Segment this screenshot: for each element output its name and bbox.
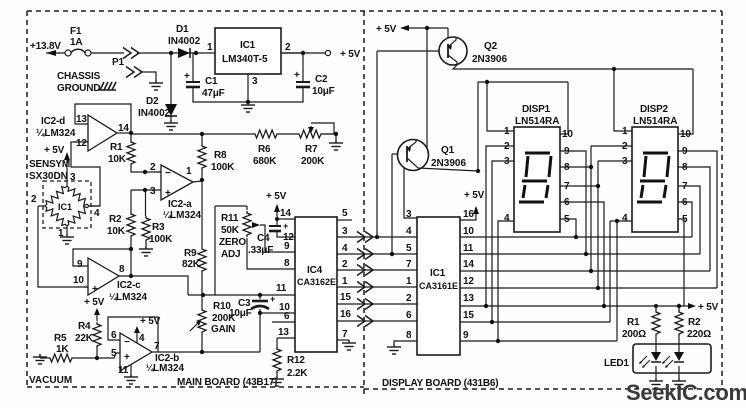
- svg-text:R7: R7: [305, 144, 318, 155]
- svg-text:Q2: Q2: [484, 41, 498, 52]
- svg-text:100K: 100K: [211, 162, 235, 173]
- svg-text:2: 2: [285, 42, 291, 53]
- svg-text:16: 16: [463, 209, 474, 220]
- svg-text:SeekIC.com: SeekIC.com: [626, 380, 746, 405]
- svg-text:2: 2: [150, 162, 156, 173]
- svg-text:3: 3: [252, 76, 258, 87]
- svg-text:1: 1: [406, 276, 412, 287]
- svg-text:+ 5V: + 5V: [84, 297, 105, 308]
- svg-text:C4: C4: [257, 233, 270, 244]
- svg-text:10: 10: [73, 275, 84, 286]
- svg-text:3: 3: [150, 186, 156, 197]
- svg-text:F1: F1: [70, 26, 82, 37]
- svg-text:8: 8: [119, 264, 125, 275]
- svg-text:6: 6: [406, 310, 412, 321]
- svg-text:11: 11: [118, 365, 129, 376]
- svg-text:R5: R5: [54, 333, 67, 344]
- svg-text:200K: 200K: [301, 156, 325, 167]
- svg-text:3: 3: [342, 226, 348, 237]
- svg-text:+: +: [165, 188, 171, 199]
- svg-text:+: +: [92, 284, 98, 295]
- svg-text:5: 5: [342, 208, 348, 219]
- svg-text:P1: P1: [112, 57, 124, 68]
- svg-text:14: 14: [280, 208, 291, 219]
- svg-text:R9: R9: [184, 248, 197, 259]
- svg-text:220Ω: 220Ω: [687, 329, 711, 340]
- svg-text:CA3162E: CA3162E: [297, 277, 336, 287]
- svg-text:−: −: [165, 168, 171, 179]
- svg-text:SX30DN: SX30DN: [29, 171, 68, 182]
- svg-text:DISP1: DISP1: [522, 104, 551, 115]
- svg-text:15: 15: [463, 310, 474, 321]
- svg-text:VACUUM: VACUUM: [29, 375, 72, 386]
- svg-text:R1: R1: [110, 142, 123, 153]
- svg-text:R8: R8: [214, 150, 227, 161]
- svg-text:10K: 10K: [108, 154, 127, 165]
- svg-text:IC2-a: IC2-a: [168, 199, 192, 210]
- svg-text:10μF: 10μF: [312, 86, 335, 97]
- svg-text:680K: 680K: [253, 156, 277, 167]
- svg-text:82K: 82K: [182, 259, 201, 270]
- svg-text:IC1: IC1: [430, 268, 446, 279]
- svg-text:11: 11: [463, 243, 474, 254]
- svg-text:9: 9: [463, 330, 469, 341]
- svg-text:2N3906: 2N3906: [472, 54, 507, 65]
- svg-text:+ 5V: + 5V: [464, 190, 485, 201]
- svg-text:12: 12: [76, 138, 87, 149]
- svg-text:13: 13: [278, 327, 289, 338]
- svg-text:6: 6: [284, 311, 290, 322]
- svg-text:CA3161E: CA3161E: [419, 281, 458, 291]
- svg-text:4: 4: [622, 213, 628, 224]
- svg-text:11: 11: [276, 283, 287, 294]
- svg-text:8: 8: [284, 258, 290, 269]
- svg-text:GROUND: GROUND: [57, 83, 100, 94]
- svg-text:+ 5V: + 5V: [140, 316, 161, 327]
- svg-text:7: 7: [406, 259, 412, 270]
- svg-text:Q1: Q1: [441, 145, 455, 156]
- svg-text:13: 13: [76, 114, 87, 125]
- svg-text:R11: R11: [221, 213, 239, 224]
- svg-text:1: 1: [342, 276, 348, 287]
- svg-text:D1: D1: [176, 24, 189, 35]
- svg-text:SENSYM: SENSYM: [29, 159, 70, 170]
- svg-text:1: 1: [622, 126, 628, 137]
- svg-text:+: +: [124, 352, 130, 363]
- svg-text:R6: R6: [258, 144, 271, 155]
- svg-text:10μF: 10μF: [229, 308, 252, 319]
- svg-text:C1: C1: [205, 76, 218, 87]
- svg-text:DISP2: DISP2: [640, 104, 669, 115]
- svg-text:15: 15: [340, 292, 351, 303]
- svg-text:IC1: IC1: [240, 40, 256, 51]
- svg-text:10: 10: [562, 129, 573, 140]
- svg-text:+: +: [184, 71, 190, 82]
- svg-text:22K: 22K: [75, 333, 94, 344]
- svg-text:1: 1: [207, 42, 213, 53]
- svg-text:ZERO: ZERO: [219, 237, 246, 248]
- svg-text:IC4: IC4: [307, 265, 323, 276]
- svg-text:47μF: 47μF: [202, 88, 225, 99]
- svg-text:7: 7: [342, 329, 348, 340]
- svg-text:1: 1: [186, 166, 192, 177]
- svg-text:IC2-c: IC2-c: [117, 280, 141, 291]
- svg-text:ADJ: ADJ: [221, 249, 240, 260]
- svg-text:4: 4: [406, 226, 412, 237]
- svg-text:6: 6: [111, 330, 117, 341]
- svg-text:+ 5V: + 5V: [698, 302, 719, 313]
- svg-text:¼LM324: ¼LM324: [36, 128, 76, 139]
- svg-text:D2: D2: [146, 96, 159, 107]
- svg-text:4: 4: [139, 333, 145, 344]
- svg-text:+: +: [294, 70, 300, 81]
- svg-text:LED1: LED1: [604, 358, 629, 369]
- svg-text:R2: R2: [109, 214, 122, 225]
- svg-text:1: 1: [504, 126, 510, 137]
- svg-text:100K: 100K: [149, 234, 173, 245]
- svg-text:2: 2: [406, 293, 412, 304]
- svg-text:10: 10: [680, 129, 691, 140]
- svg-text:IN4002: IN4002: [168, 36, 201, 47]
- svg-text:+ 5V: + 5V: [376, 24, 397, 35]
- svg-text:9: 9: [77, 259, 83, 270]
- svg-text:IC1: IC1: [58, 202, 72, 212]
- svg-text:2: 2: [31, 194, 37, 205]
- svg-text:1A: 1A: [70, 37, 82, 48]
- svg-text:R12: R12: [287, 355, 305, 366]
- svg-text:−: −: [124, 337, 130, 348]
- svg-text:+: +: [270, 294, 275, 304]
- svg-text:.33μF: .33μF: [248, 245, 273, 256]
- svg-text:GAIN: GAIN: [211, 324, 235, 335]
- svg-text:+ 5V: + 5V: [266, 191, 287, 202]
- svg-text:LN514RA: LN514RA: [633, 116, 677, 127]
- svg-text:R3: R3: [152, 222, 165, 233]
- svg-text:50K: 50K: [221, 225, 240, 236]
- svg-text:5: 5: [406, 243, 412, 254]
- svg-text:DISPLAY BOARD (431B6): DISPLAY BOARD (431B6): [382, 378, 498, 389]
- svg-text:4: 4: [342, 243, 348, 254]
- svg-text:+ 5V: + 5V: [340, 49, 361, 60]
- svg-text:8: 8: [406, 330, 412, 341]
- svg-text:R4: R4: [78, 321, 91, 332]
- svg-text:2N3906: 2N3906: [431, 158, 466, 169]
- svg-text:9: 9: [284, 241, 290, 252]
- svg-text:R1: R1: [627, 317, 640, 328]
- svg-text:LM324: LM324: [170, 210, 202, 221]
- svg-text:3: 3: [406, 209, 412, 220]
- svg-text:10K: 10K: [107, 226, 126, 237]
- svg-text:10: 10: [463, 226, 474, 237]
- svg-text:LM340T-5: LM340T-5: [222, 54, 268, 65]
- svg-text:CHASSIS: CHASSIS: [57, 71, 101, 82]
- svg-text:7: 7: [154, 341, 160, 352]
- svg-text:MAIN BOARD (43B17): MAIN BOARD (43B17): [177, 377, 277, 388]
- svg-text:13: 13: [463, 293, 474, 304]
- svg-text:+: +: [283, 221, 288, 231]
- svg-text:+ 5V: + 5V: [44, 145, 65, 156]
- svg-text:14: 14: [463, 259, 474, 270]
- svg-text:2.2K: 2.2K: [287, 368, 308, 379]
- svg-text:2: 2: [342, 259, 348, 270]
- svg-text:12: 12: [463, 276, 474, 287]
- svg-text:IC2-d: IC2-d: [41, 116, 65, 127]
- svg-text:200Ω: 200Ω: [622, 329, 646, 340]
- svg-text:14: 14: [118, 123, 129, 134]
- svg-text:IN4002: IN4002: [138, 108, 171, 119]
- svg-text:LM324: LM324: [116, 292, 148, 303]
- svg-text:+13.8V: +13.8V: [30, 41, 61, 52]
- svg-text:LN514RA: LN514RA: [515, 116, 559, 127]
- svg-text:R2: R2: [688, 317, 701, 328]
- svg-text:4: 4: [94, 208, 100, 219]
- svg-text:C2: C2: [315, 74, 328, 85]
- svg-text:5: 5: [111, 348, 117, 359]
- svg-text:16: 16: [340, 309, 351, 320]
- svg-text:LM324: LM324: [153, 363, 185, 374]
- svg-text:4: 4: [504, 213, 510, 224]
